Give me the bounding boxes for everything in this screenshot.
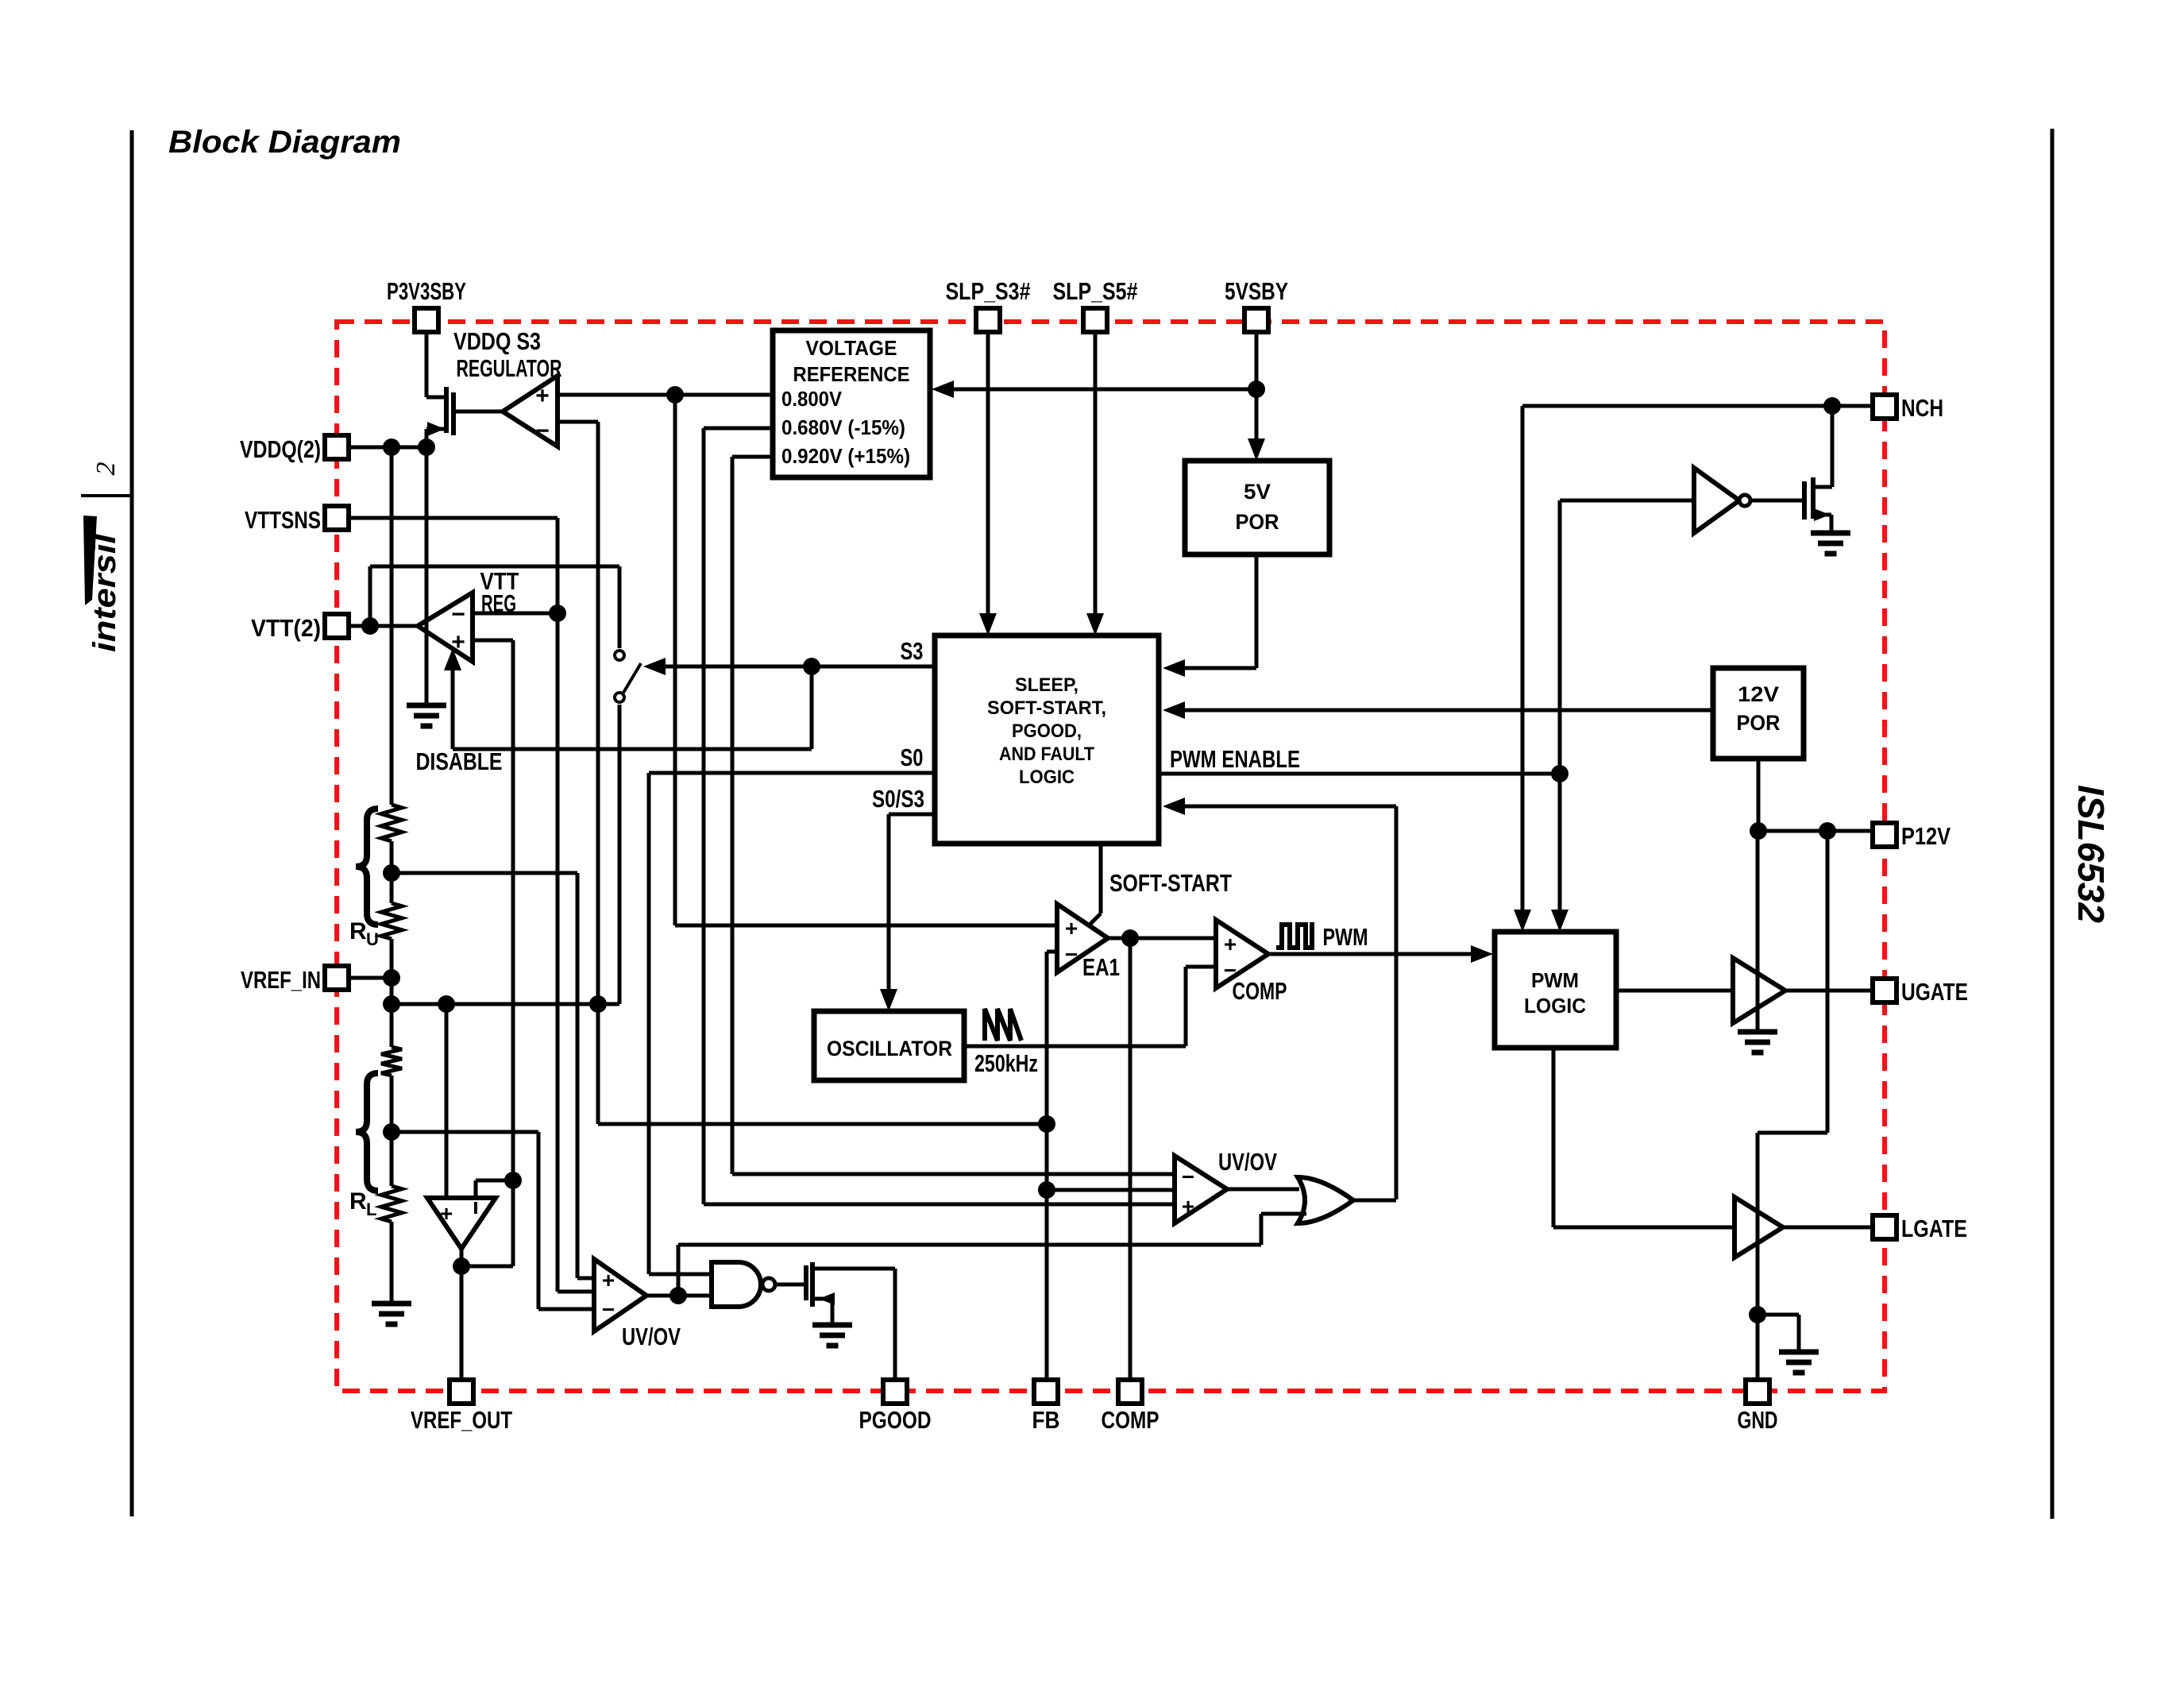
svg-text:SOFT-START,: SOFT-START, bbox=[987, 697, 1106, 719]
svg-text:VOLTAGE: VOLTAGE bbox=[806, 336, 897, 360]
svg-text:PGOOD,: PGOOD, bbox=[1012, 720, 1082, 742]
svg-text:+: + bbox=[1182, 1194, 1194, 1219]
svg-text:OSCILLATOR: OSCILLATOR bbox=[827, 1037, 952, 1060]
svg-text:+: + bbox=[535, 383, 550, 409]
svg-text:+: + bbox=[1065, 916, 1078, 941]
svg-text:−: − bbox=[1065, 942, 1078, 967]
svg-text:U: U bbox=[366, 929, 379, 949]
svg-text:LOGIC: LOGIC bbox=[1019, 767, 1075, 788]
svg-text:VTTSNS: VTTSNS bbox=[245, 506, 321, 534]
svg-text:VREF_IN: VREF_IN bbox=[241, 966, 321, 994]
svg-text:POR: POR bbox=[1737, 711, 1781, 735]
svg-text:R: R bbox=[349, 1188, 367, 1215]
svg-text:NCH: NCH bbox=[1901, 394, 1943, 422]
svg-text:250kHz: 250kHz bbox=[974, 1049, 1038, 1077]
svg-text:0.800V: 0.800V bbox=[781, 387, 843, 411]
svg-text:POR: POR bbox=[1236, 510, 1279, 534]
svg-text:LGATE: LGATE bbox=[1901, 1215, 1967, 1242]
svg-text:FB: FB bbox=[1032, 1406, 1060, 1434]
svg-text:VDDQ S3: VDDQ S3 bbox=[453, 327, 541, 355]
svg-text:AND FAULT: AND FAULT bbox=[999, 744, 1094, 765]
svg-text:2: 2 bbox=[91, 462, 121, 476]
svg-text:SLEEP,: SLEEP, bbox=[1015, 674, 1078, 696]
svg-text:0.920V (+15%): 0.920V (+15%) bbox=[781, 444, 910, 468]
svg-text:REFERENCE: REFERENCE bbox=[793, 362, 910, 386]
svg-text:+: + bbox=[602, 1268, 615, 1292]
svg-text:PGOOD: PGOOD bbox=[859, 1406, 932, 1434]
svg-text:S0/S3: S0/S3 bbox=[872, 785, 924, 813]
svg-text:S0: S0 bbox=[901, 744, 924, 771]
svg-text:GND: GND bbox=[1738, 1406, 1778, 1434]
svg-text:+: + bbox=[440, 1201, 453, 1226]
svg-text:−: − bbox=[1182, 1165, 1194, 1189]
svg-text:UV/OV: UV/OV bbox=[622, 1323, 681, 1350]
svg-text:R: R bbox=[349, 918, 367, 944]
svg-text:S3: S3 bbox=[901, 637, 924, 665]
svg-text:COMP: COMP bbox=[1233, 977, 1287, 1005]
svg-text:12V: 12V bbox=[1738, 682, 1779, 706]
svg-text:5V: 5V bbox=[1244, 480, 1271, 504]
svg-text:PWM: PWM bbox=[1323, 923, 1368, 951]
svg-text:VREF_OUT: VREF_OUT bbox=[411, 1406, 512, 1434]
svg-text:EA1: EA1 bbox=[1082, 953, 1120, 981]
svg-text:ISL6532: ISL6532 bbox=[2070, 785, 2112, 923]
svg-text:VTT(2): VTT(2) bbox=[251, 614, 321, 642]
svg-text:P3V3SBY: P3V3SBY bbox=[387, 277, 466, 305]
svg-text:5VSBY: 5VSBY bbox=[1225, 277, 1288, 305]
svg-text:−: − bbox=[602, 1297, 615, 1322]
svg-text:PWM: PWM bbox=[1531, 968, 1579, 992]
svg-text:VDDQ(2): VDDQ(2) bbox=[240, 435, 321, 463]
svg-text:−: − bbox=[451, 601, 465, 628]
svg-text:DISABLE: DISABLE bbox=[416, 747, 503, 775]
svg-text:PWM ENABLE: PWM ENABLE bbox=[1170, 745, 1300, 773]
svg-text:L: L bbox=[366, 1199, 376, 1219]
svg-text:LOGIC: LOGIC bbox=[1524, 994, 1586, 1018]
svg-text:SLP_S5#: SLP_S5# bbox=[1053, 277, 1138, 305]
svg-text:REGULATOR: REGULATOR bbox=[457, 354, 562, 382]
svg-text:Block Diagram: Block Diagram bbox=[168, 125, 401, 160]
svg-text:+: + bbox=[1224, 932, 1237, 956]
svg-text:−: − bbox=[535, 418, 550, 444]
svg-text:COMP: COMP bbox=[1102, 1406, 1160, 1434]
svg-text:0.680V (-15%): 0.680V (-15%) bbox=[781, 415, 905, 439]
svg-text:SOFT-START: SOFT-START bbox=[1109, 869, 1232, 897]
svg-text:P12V: P12V bbox=[1901, 822, 1951, 850]
svg-text:SLP_S3#: SLP_S3# bbox=[946, 277, 1031, 305]
svg-text:UV/OV: UV/OV bbox=[1218, 1148, 1277, 1176]
svg-text:UGATE: UGATE bbox=[1901, 978, 1968, 1006]
